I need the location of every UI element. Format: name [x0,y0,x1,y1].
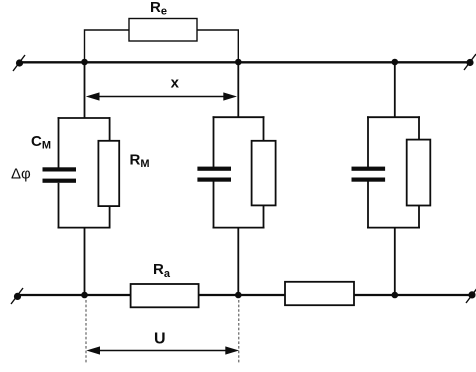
resistor Re [129,19,197,42]
wire branch 3 top bar [367,116,420,118]
dimension U arrow [86,346,239,354]
node top-left terminal dot [16,59,23,66]
dimension U extension line left [85,300,87,363]
wire bottom bus segment 3 [354,294,472,296]
capacitor C2 top lead [213,116,215,167]
resistor RM [98,141,119,206]
node top-right terminal dot [466,59,473,66]
capacitor C3 plates [352,167,386,182]
wire bottom-left break slash [11,288,23,304]
wire bottom bus segment 1 [17,294,131,296]
capacitor C3 top lead [367,116,369,167]
capacitor CM bottom lead [58,183,60,229]
wire branch 2 top stub [237,62,239,117]
resistor R3 bottom lead [418,206,420,229]
resistor R2 [252,141,276,206]
capacitor C2 bottom lead [213,181,215,228]
node bottom-right terminal dot [468,291,475,298]
svg-text:CM: CM [31,133,51,152]
resistor R3 [407,140,431,206]
svg-text:x: x [171,75,180,92]
resistor Ra [131,284,199,307]
wire top-right break slash [464,54,476,70]
node junction B1 (bottom bus / branch 1) [81,292,88,299]
node junction B2 (bottom bus / branch 2) [235,292,242,299]
resistor R2 bottom lead [263,205,265,228]
resistor RM top lead [109,117,111,141]
wire Re left riser [85,30,130,62]
wire branch 2 top bar [213,116,265,118]
node bottom-left terminal dot [14,293,21,300]
resistor R2 top lead [263,116,265,141]
wire branch 3 top stub [394,62,396,117]
dimension U extension line right [238,300,240,363]
wire branch 1 top bar [58,117,111,119]
svg-text:RM: RM [130,152,150,171]
svg-text:U: U [154,331,166,348]
wire branch 1 bottom stub [84,228,86,295]
wire bottom bus segment 2 [199,294,285,296]
resistor R3 top lead [418,116,420,139]
svg-text:Δφ: Δφ [11,166,31,183]
capacitor C3 bottom lead [367,181,369,228]
resistor R4 [285,282,354,305]
node junction A3 (top bus / branch 3) [392,59,399,66]
node junction A2 (top bus / branch 2) [235,59,242,66]
svg-text:Re: Re [150,0,167,18]
node junction B3 (bottom bus / branch 3) [392,292,399,299]
svg-text:Ra: Ra [153,261,171,280]
wire branch 3 bottom bar [367,227,420,229]
dimension x arrow [86,92,237,100]
wire branch 1 bottom bar [58,227,111,229]
wire top bus [19,61,470,63]
capacitor CM top lead [58,117,60,167]
capacitor C2 plates [197,167,231,182]
capacitor CM plates [43,167,77,183]
wire top-left break slash [13,55,25,71]
wire branch 2 bottom stub [237,228,239,295]
node junction A1 (top bus / branch 1) [81,59,88,66]
wire branch 1 top stub [84,62,86,118]
resistor RM bottom lead [109,206,111,228]
wire bottom-right break slash [466,287,476,303]
wire Re right riser [197,30,238,62]
wire branch 2 bottom bar [213,227,265,229]
wire branch 3 bottom stub [394,228,396,295]
